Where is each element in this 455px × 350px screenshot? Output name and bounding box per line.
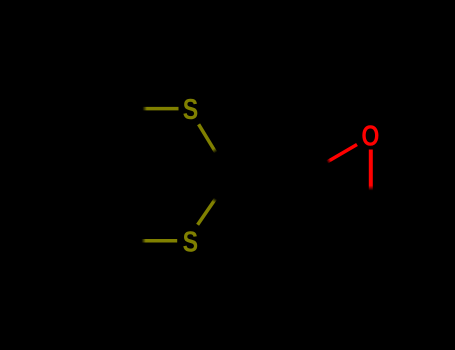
bond S1-C0 (top sulfur to acetal carbon, visible S-colored half) bbox=[199, 124, 216, 152]
bond CH3-S1 (top methyl to sulfur, visible S-colored half, fades left into black C half) bbox=[143, 107, 179, 111]
bond CH3-S2 (bottom methyl to sulfur, visible S-colored half, fades left into black C half) bbox=[142, 239, 178, 243]
svg-text:S: S bbox=[183, 92, 198, 125]
bond S2-C0 (bottom sulfur to acetal carbon, visible S-colored half) bbox=[198, 199, 216, 225]
svg-text:O: O bbox=[361, 119, 379, 152]
svg-text:S: S bbox=[183, 225, 198, 258]
bond O-C2 (oxygen to oxirane CH2, visible O-colored half, fades down into black C half) bbox=[369, 150, 373, 191]
bond C1-O (oxirane CH to oxygen, visible O-colored half, fades into black wedge side) bbox=[327, 145, 357, 163]
